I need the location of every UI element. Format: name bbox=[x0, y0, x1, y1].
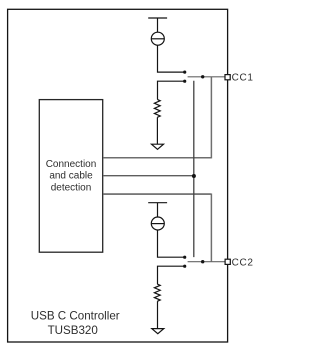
block U1 Connection and cable detection bbox=[39, 100, 102, 253]
ground top bbox=[152, 144, 164, 149]
wire rail to I2 bbox=[157, 203, 159, 217]
svg-text:CC1: CC1 bbox=[232, 73, 254, 84]
wire L2 detection to switch link bbox=[103, 175, 193, 177]
wire S1 common to CC1 pin bbox=[188, 76, 225, 78]
wire S1 contact b to R1 bbox=[158, 81, 185, 99]
current source I1 bbox=[151, 32, 164, 45]
pin CC2 bbox=[225, 259, 230, 264]
svg-text:TUSB320: TUSB320 bbox=[48, 324, 98, 337]
power rail top bbox=[148, 17, 167, 19]
svg-text:USB C Controller: USB C Controller bbox=[31, 310, 120, 323]
wire R2 to ground bbox=[157, 301, 159, 328]
current source I2 bbox=[151, 217, 164, 230]
junction CC1 net bbox=[201, 75, 204, 78]
wire B2 vertical to CC2 bbox=[210, 194, 212, 262]
wire B1 vertical to CC1 bbox=[210, 77, 212, 159]
switch S2 contact a bbox=[183, 256, 186, 259]
svg-text:detection: detection bbox=[51, 183, 92, 194]
chip boundary bbox=[8, 9, 228, 342]
power rail bottom bbox=[148, 202, 167, 204]
pin CC1 bbox=[225, 75, 230, 80]
wire S2 common to CC2 pin bbox=[188, 261, 225, 263]
junction link-L2 bbox=[192, 174, 196, 178]
junction CC2 net bbox=[201, 260, 204, 263]
wire I1 to switch S1 bbox=[158, 45, 185, 72]
resistor R2 bbox=[154, 284, 160, 301]
wire I2 to switch S2 bbox=[158, 230, 185, 257]
svg-text:CC2: CC2 bbox=[232, 258, 254, 269]
switch S1 contact b bbox=[183, 80, 186, 83]
svg-text:and cable: and cable bbox=[49, 171, 93, 182]
wire S2 contact b to R2 bbox=[158, 266, 185, 284]
ground bottom bbox=[152, 329, 164, 334]
wire switch link vertical bbox=[193, 81, 195, 257]
wire rail to I1 bbox=[157, 18, 159, 32]
resistor R1 bbox=[154, 99, 160, 117]
switch S1 contact a bbox=[183, 71, 186, 74]
wire L1 detection to CC1 net bbox=[103, 157, 211, 159]
wire L3 detection to CC2 net bbox=[103, 193, 211, 195]
svg-text:Connection: Connection bbox=[46, 159, 97, 170]
wire R1 to ground bbox=[156, 117, 158, 144]
switch S2 contact b bbox=[183, 265, 186, 268]
